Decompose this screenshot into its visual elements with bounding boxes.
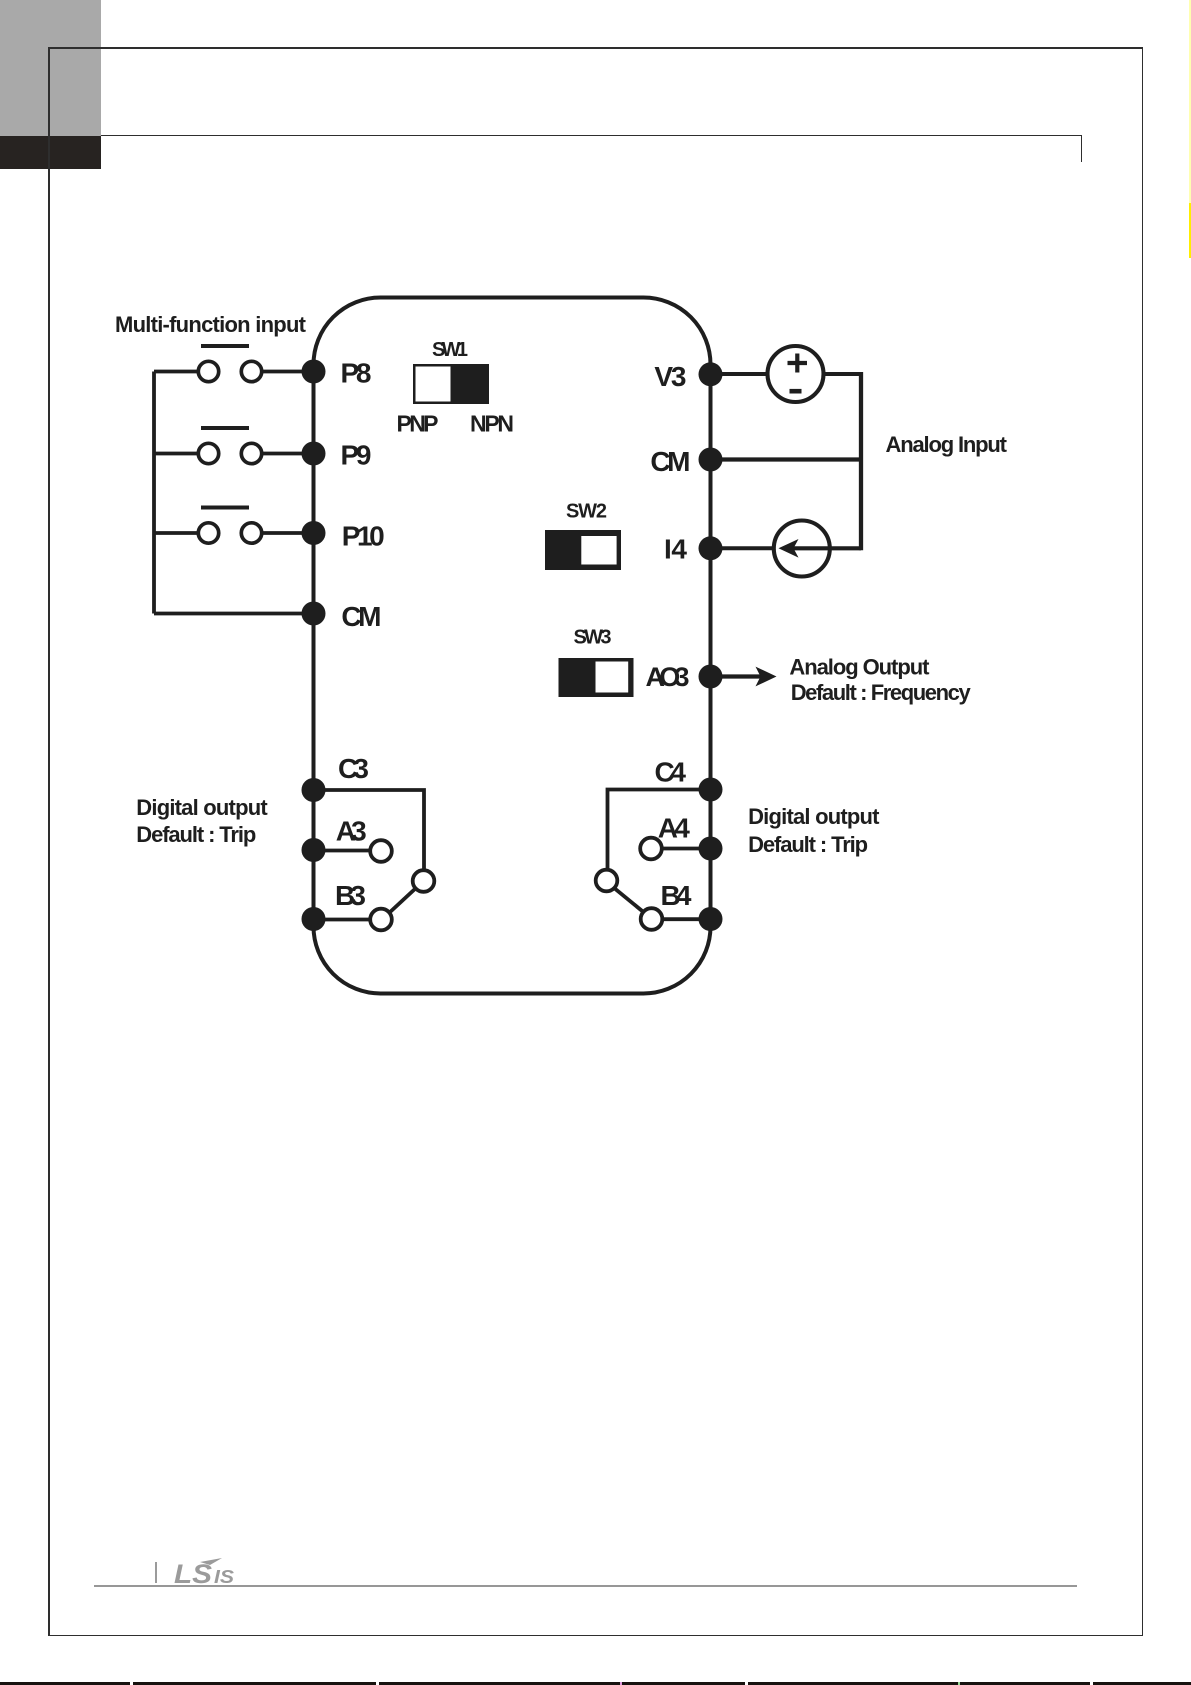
svg-text:SW2: SW2 — [566, 501, 607, 523]
svg-text:P10: P10 — [342, 521, 385, 552]
svg-text:PNP: PNP — [397, 411, 439, 437]
svg-text:Multi-function input: Multi-function input — [115, 312, 307, 337]
svg-text:Default : Frequency: Default : Frequency — [791, 680, 972, 705]
svg-text:A3: A3 — [336, 816, 367, 847]
svg-text:A4: A4 — [658, 813, 690, 844]
svg-text:Digital output: Digital output — [748, 804, 880, 829]
svg-text:C4: C4 — [655, 757, 687, 788]
svg-text:Analog Output: Analog Output — [789, 654, 930, 679]
svg-text:SW3: SW3 — [574, 627, 612, 649]
svg-text:Analog Input: Analog Input — [886, 432, 1008, 457]
svg-text:CM: CM — [650, 446, 690, 477]
svg-text:B3: B3 — [335, 880, 366, 911]
svg-text:B4: B4 — [661, 880, 692, 911]
svg-text:C3: C3 — [338, 753, 369, 784]
svg-text:Digital output: Digital output — [136, 795, 268, 820]
svg-text:V3: V3 — [654, 361, 686, 392]
svg-text:P8: P8 — [341, 358, 372, 389]
svg-text:AO3: AO3 — [646, 662, 690, 692]
svg-text:I4: I4 — [664, 534, 687, 565]
svg-text:SW1: SW1 — [432, 339, 468, 361]
svg-text:CM: CM — [341, 601, 381, 632]
svg-text:P9: P9 — [341, 440, 372, 471]
svg-text:Default : Trip: Default : Trip — [136, 822, 256, 847]
svg-text:Default : Trip: Default : Trip — [748, 832, 868, 857]
svg-text:NPN: NPN — [470, 411, 514, 437]
